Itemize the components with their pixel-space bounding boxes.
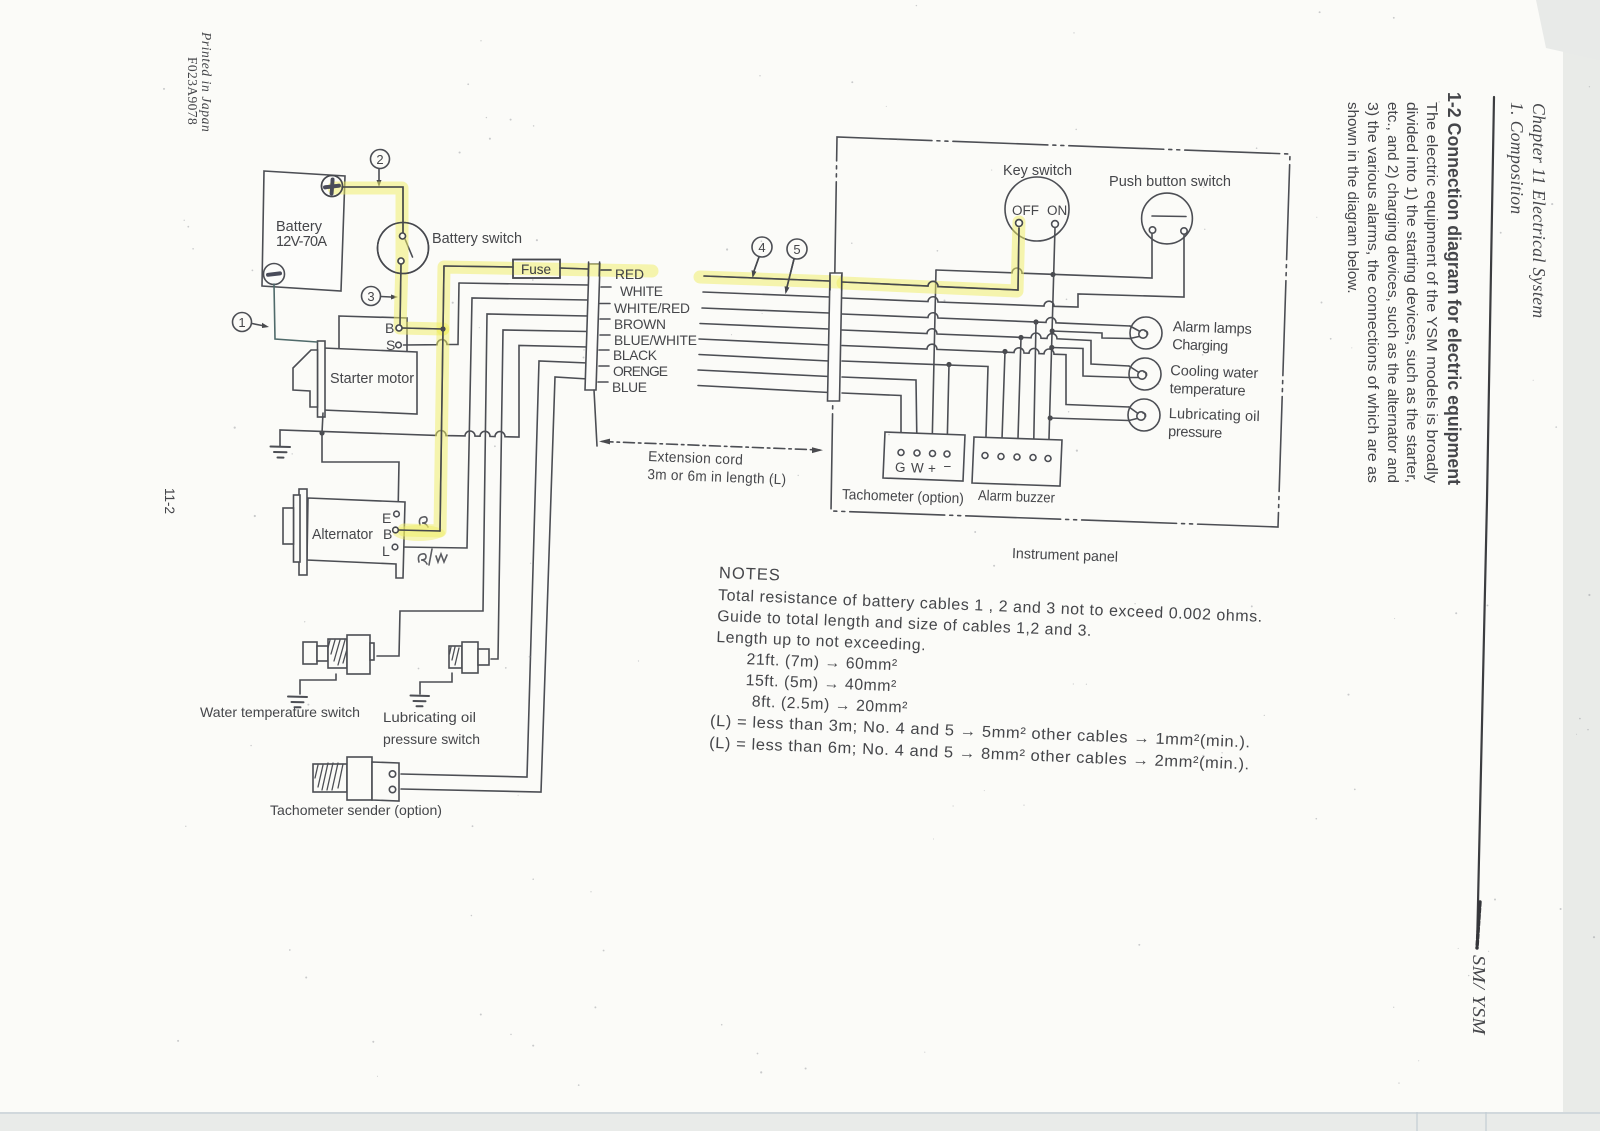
red extension wire ink: [704, 276, 829, 281]
svg-text:ON: ON: [1047, 203, 1067, 218]
svg-text:divided into 1) the starting d: divided into 1) the starting devices, su…: [1403, 102, 1420, 483]
svg-text:L: L: [382, 543, 390, 559]
wire switch to B ink: [400, 264, 401, 325]
svg-text:1-2 Connection diagram for ele: 1-2 Connection diagram for electric equi…: [1444, 92, 1464, 485]
svg-text:The electric equipment of the: The electric equipment of the YSM models…: [1423, 102, 1440, 483]
junction dot t3 on brown row: [1018, 335, 1023, 340]
page divider rule dashed tail: [1477, 902, 1480, 948]
svg-text:pressure switch: pressure switch: [383, 731, 480, 747]
junction dot tach minus on black row: [946, 362, 951, 367]
wire red vertical junction to fuse level and down to alternator B: [440, 266, 444, 531]
svg-text:Alarm lamps: Alarm lamps: [1173, 319, 1253, 338]
callout circle 5: [785, 239, 807, 294]
alarm buzzer box: [972, 437, 1062, 486]
alternator B terminal ink: [393, 527, 399, 533]
ground symbol water temp: [288, 697, 307, 708]
svg-text:11-2: 11-2: [162, 488, 177, 514]
lub oil lamp lower feed wire: [1050, 418, 1129, 421]
wire ground bus to alternator E: [322, 433, 399, 516]
battery switch: [378, 223, 523, 274]
oil pressure switch ground wire: [420, 673, 452, 694]
svg-text:Battery switch: Battery switch: [432, 231, 522, 247]
svg-text:temperature: temperature: [1169, 381, 1246, 400]
wire starter B to junction: [402, 328, 443, 329]
svg-text:BLACK: BLACK: [613, 348, 658, 363]
callout circle 2: [371, 150, 390, 188]
svg-text:E: E: [382, 510, 391, 526]
NOTES block: [709, 564, 1264, 774]
svg-text:3: 3: [367, 289, 374, 304]
junction dot charging feed: [1050, 328, 1055, 333]
panel row white to push button right terminal: [842, 234, 1184, 307]
fuse box ink: [513, 260, 560, 279]
svg-text:NOTES: NOTES: [719, 564, 782, 584]
wire color labels: [612, 267, 697, 395]
svg-text:5: 5: [793, 242, 800, 257]
cooling water lamp: [1129, 358, 1161, 390]
engine row blue and lead to tach sender bottom: [401, 377, 588, 792]
extension line below left bar: [594, 390, 597, 446]
panel row orenge to tach W: [842, 377, 917, 449]
wire white S lead with hop: [404, 283, 460, 345]
svg-text:shown in the diagram below.: shown in the diagram below.: [1344, 102, 1361, 294]
extension cord wire orenge: [698, 370, 829, 377]
tach minus vertical: [947, 365, 949, 452]
tachometer box: [883, 432, 965, 481]
battery plus circle ink: [322, 176, 343, 197]
svg-text:Fuse: Fuse: [521, 262, 551, 277]
engine row black and ground bus with hops: [280, 346, 588, 447]
svg-text:12V-70A: 12V-70A: [276, 234, 327, 250]
bottom faint vertical line B: [1485, 1112, 1487, 1131]
extension cord wire blue: [698, 386, 829, 393]
highlight red wire through fuse: [443, 267, 652, 329]
ink re-drawn over highlighter: [322, 176, 1023, 533]
red row to fuse ink: [444, 266, 513, 267]
junction dot t2 on blue-white row: [1002, 349, 1007, 354]
svg-text:B: B: [383, 526, 392, 542]
svg-text:3) the various alarms, the con: 3) the various alarms, the connections o…: [1364, 102, 1381, 483]
battery: [262, 171, 345, 291]
svg-text:Key switch: Key switch: [1003, 163, 1072, 179]
svg-text:Lubricating oil: Lubricating oil: [383, 709, 476, 725]
starter solenoid box with B S terminals: [339, 316, 407, 353]
svg-text:SM/ YSM: SM/ YSM: [1469, 955, 1489, 1036]
svg-text:Battery: Battery: [276, 219, 323, 235]
key switch ON vertical to buzzer terminal5: [1049, 228, 1056, 456]
highlight blob at alternator B: [393, 525, 445, 541]
extension cord wire brown: [700, 324, 829, 330]
battery minus terminal: [264, 264, 285, 285]
alternator shaft end box: [283, 508, 294, 544]
panel row red to key switch OFF: [842, 228, 1019, 290]
svg-text:ORENGE: ORENGE: [613, 364, 668, 379]
panel row blue-white to lub oil lamp upper: [842, 344, 1129, 407]
handwritten R/W annotation: [418, 549, 447, 565]
starter motor body: [323, 348, 417, 414]
water temp switch ground wire: [300, 674, 336, 694]
svg-text:Tachometer sender (option): Tachometer sender (option): [270, 802, 442, 818]
junction dot t4 on white-red row: [1033, 319, 1038, 324]
panel row black to buzzer terminal1: [842, 361, 988, 453]
junction dot starter B / red vertical: [440, 326, 445, 331]
wire B junction ink: [402, 328, 443, 329]
red panel row ink: [842, 228, 1019, 290]
svg-text:Charging: Charging: [1172, 337, 1229, 355]
highlight red panel row to key OFF: [843, 222, 1019, 291]
alternator B wire ink: [399, 530, 441, 531]
page divider rule: [1477, 97, 1494, 948]
svg-text:F023A9078: F023A9078: [185, 57, 200, 125]
top-right corner gray blob: [1536, 0, 1600, 60]
svg-text:−: −: [944, 459, 952, 474]
svg-text:BLUE/WHITE: BLUE/WHITE: [614, 333, 697, 348]
svg-text:1. Composition: 1. Composition: [1507, 102, 1527, 215]
extension cord label: [647, 449, 787, 488]
wire label ticks: [598, 270, 611, 382]
svg-text:BROWN: BROWN: [614, 317, 666, 332]
svg-text:Cooling water: Cooling water: [1170, 363, 1259, 382]
buzzer terminal3 vertical: [1018, 338, 1022, 456]
engine row white-red and lead to alternator L: [402, 298, 588, 548]
svg-text:pressure: pressure: [1168, 424, 1223, 442]
panel row brown to cooling lamp upper: [842, 329, 1129, 366]
junction dot lub oil feed: [1048, 415, 1053, 420]
callout circle 3: [362, 287, 399, 306]
svg-text:Water temperature switch: Water temperature switch: [200, 704, 360, 720]
buzzer terminal2 vertical: [1002, 352, 1006, 455]
connector bar engine side: [585, 264, 600, 390]
callout circle 4: [752, 237, 772, 278]
alternator flange bar tall: [299, 489, 307, 575]
svg-text:BLUE: BLUE: [612, 380, 647, 395]
key OFF terminal ink: [1016, 220, 1023, 227]
svg-text:Printed in Japan: Printed in Japan: [199, 31, 214, 132]
starter motor end housing: [293, 350, 318, 407]
svg-text:+: +: [928, 461, 936, 476]
wire starter body to ground bus: [322, 413, 323, 433]
water temperature switch body: [303, 635, 374, 674]
extension cord wire black: [699, 355, 829, 362]
highlight red vertical down to alternator B: [404, 332, 443, 531]
charging lamp lower feed wire: [1052, 331, 1130, 339]
svg-text:WHITE: WHITE: [620, 284, 663, 299]
wire battery minus to starter body: [274, 284, 317, 342]
wire battery plus to switch: [342, 187, 403, 233]
buzzer terminal4 vertical: [1034, 322, 1037, 455]
alternator flange bar short: [294, 495, 301, 562]
junction dot ON vertical on feed line: [1050, 272, 1055, 277]
callout 4 leader ink: [754, 257, 759, 271]
starter motor flange bar: [318, 341, 326, 417]
svg-text:W: W: [911, 461, 924, 476]
svg-text:1: 1: [238, 315, 245, 330]
panel row white-red to charging lamp: [842, 313, 1130, 326]
fuse: [513, 260, 560, 279]
svg-text:4: 4: [758, 240, 765, 255]
svg-text:Push button switch: Push button switch: [1109, 174, 1231, 190]
junction dot ground bus / starter: [319, 430, 324, 435]
push button switch: [1109, 174, 1231, 244]
highlight red extension wire: [700, 277, 838, 282]
charging alarm lamp: [1130, 317, 1162, 349]
wire battery plus to switch ink: [342, 187, 403, 233]
tachometer sender body: [313, 757, 399, 801]
svg-text:G: G: [895, 460, 906, 475]
extension cord wire white: [703, 292, 829, 297]
engine row brown and lead to water temp switch: [377, 314, 588, 656]
right page-edge gray strip: [1563, 0, 1600, 1131]
svg-text:Chapter 11 Electrical System: Chapter 11 Electrical System: [1529, 103, 1549, 318]
junction dot ink: [440, 326, 445, 331]
svg-text:RED: RED: [615, 267, 644, 282]
svg-text:Alternator: Alternator: [312, 527, 373, 543]
bottom faint vertical line A: [1416, 1112, 1418, 1131]
red row fuse to bar ink: [560, 268, 588, 269]
callout circle 1: [233, 313, 270, 332]
svg-text:Lubricating oil: Lubricating oil: [1169, 406, 1261, 425]
connector bar edges at red row ink: [587, 262, 589, 276]
svg-text:2: 2: [376, 152, 383, 167]
connector bar panel side: [828, 273, 843, 401]
wire alternator B to red vertical: [399, 530, 441, 531]
highlight battery plus to switch to starter B: [334, 188, 443, 329]
tach plus vertical to push button feed line: [932, 270, 936, 450]
extension cord wire blue-white: [699, 339, 829, 345]
svg-text:B: B: [385, 320, 394, 336]
cooling lamp lower feed wire: [1052, 348, 1129, 378]
key switch: [1003, 163, 1072, 241]
bottom faint blue line: [0, 1112, 1600, 1114]
svg-text:Alarm buzzer: Alarm buzzer: [978, 488, 1056, 507]
svg-text:WHITE/RED: WHITE/RED: [614, 301, 690, 316]
panel row blue to tach G: [842, 393, 901, 449]
lubricating oil pressure switch body: [449, 642, 489, 673]
junction dot cooling feed: [1049, 345, 1054, 350]
alarm lamp labels: [1168, 319, 1263, 443]
ground symbol main: [271, 447, 291, 458]
engine row blue-white and lead to oil pressure switch: [491, 330, 588, 659]
wire switch to starter B: [400, 264, 401, 325]
engine row white to connector: [459, 283, 588, 285]
battery plus terminal: [322, 176, 343, 197]
B terminal ink: [396, 325, 402, 331]
battery switch circle ink: [378, 223, 429, 274]
HIGHLIGHTS: [334, 188, 1019, 541]
extension cord wire white-red: [702, 308, 829, 313]
svg-text:Starter motor: Starter motor: [330, 371, 414, 387]
handwritten R annotation: [419, 517, 428, 527]
wire red from junction to fuse and connector: [444, 266, 513, 267]
alternator body: [307, 498, 405, 578]
callout 5 leader ink: [787, 259, 794, 287]
red vertical ink: [440, 266, 444, 531]
bottom scanner strip: [0, 1112, 1600, 1131]
engine row orenge and lead to tach sender top: [401, 361, 588, 777]
instrument panel dash-dot border: [831, 137, 1290, 527]
extension cord wire red: [704, 276, 829, 281]
lub oil pressure lamp: [1128, 399, 1160, 431]
svg-text:OFF: OFF: [1012, 203, 1039, 218]
push button left feed line with hop over OFF vertical: [936, 234, 1152, 278]
svg-text:etc., and 2) charging devices,: etc., and 2) charging devices, such as t…: [1384, 102, 1401, 483]
dimension line extension cord: [599, 439, 823, 454]
ground symbol oil pressure: [411, 696, 430, 707]
